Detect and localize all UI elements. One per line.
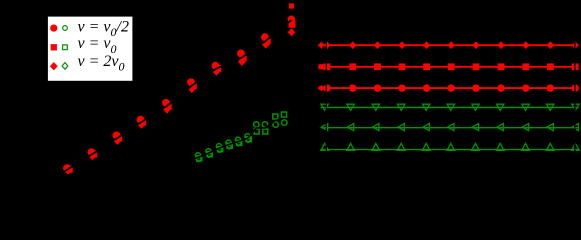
left panel: green open data clusters — [195, 112, 287, 162]
right panel: green down-triangle series line — [321, 107, 579, 109]
left panel: black connecting line over green markers — [190, 119, 284, 161]
legend box — [47, 16, 133, 81]
right panel: red circle series line — [318, 87, 578, 89]
legend row 3 markers — [50, 62, 58, 70]
legend row 2 markers — [51, 44, 57, 50]
right panel: red square series line — [318, 66, 578, 68]
left panel: topmost red cluster (series separated) — [288, 3, 296, 36]
legend row 1 markers — [50, 24, 57, 31]
left panel: red filled data clusters (circle+square+diamond series) — [63, 33, 271, 174]
right panel: green up-triangle markers — [321, 143, 579, 150]
right panel: green left-triangle markers — [321, 124, 578, 131]
right panel: right spine drawn over data — [574, 34, 575, 160]
right panel: red square markers — [319, 63, 579, 70]
right panel: red diamond series line — [318, 44, 578, 46]
right panel: left y-axis spine drawn over data — [326, 34, 327, 160]
right panel: red circle markers — [319, 84, 579, 92]
left panel: black connecting line over red markers — [55, 20, 292, 177]
right panel: red diamond markers — [319, 41, 579, 49]
right panel: green down-triangle markers — [321, 104, 579, 110]
right panel: green up-triangle series line — [321, 149, 579, 151]
right panel: green left-triangle series line — [321, 127, 579, 129]
